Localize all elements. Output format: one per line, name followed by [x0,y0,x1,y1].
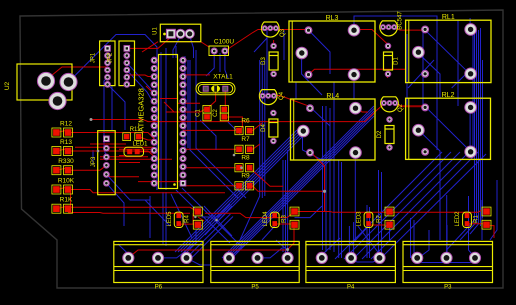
IC IC1 pin 2 (left) [151,66,157,72]
resistor R1K pad left [52,204,61,213]
IC IC1 pin 12 (left) [151,148,157,154]
resistor R7 pad right [246,145,254,153]
resistor R6 pad right [246,127,254,135]
capacitor C2 pad top [220,105,228,113]
LED LED5 outline [174,212,183,227]
relay RL3 label [326,15,339,22]
LED LED2 label [455,211,461,227]
wire top-layer red: bottom rails [68,190,483,226]
svg-text:LED5: LED5 [167,211,173,227]
transistor Q2 pads [382,101,398,106]
svg-text:P5: P5 [251,284,259,290]
IC IC1 pin 32 (right) [180,57,186,63]
crystal XTAL1 center pad [211,85,220,92]
connector P6 pad 2 [152,252,163,263]
wire top-layer red: IC to R6..R9 [183,123,262,186]
wire bottom-layer blue: upper-left area [69,35,158,157]
relay RL3 outline [289,21,375,82]
resistor R11 pad right [135,133,143,141]
capacitor C1 pad bottom [203,113,211,121]
svg-text:LED4: LED4 [263,211,269,227]
diode D2 pad anode [387,117,392,122]
svg-text:RL2: RL2 [442,92,455,99]
header JP1 pin 2 [105,53,110,58]
IC IC1 pin 7 (left) [151,107,157,113]
svg-text:R8: R8 [241,155,250,162]
IC IC1 pin 29 (right) [180,82,186,88]
diode D4 pad cathode [271,138,276,143]
header JP1 outline [100,41,115,86]
junction dot left rail [90,118,93,121]
svg-text:JP2: JP2 [108,52,114,63]
capacitor C2 pad bottom [220,113,228,121]
wire top-layer red: extra long horizontals mid-left [75,144,154,163]
relay RL1 pad coil-left [422,26,429,33]
wire top-layer red: coil diagonals to D [354,30,387,113]
resistor R2 pad top [385,207,394,216]
IC IC1 pin 1 (left) [151,57,157,63]
header JP3 pin 3 [104,154,109,159]
resistor R330 pad right [64,166,73,175]
connector U1 label [153,27,159,35]
svg-text:D3: D3 [261,57,267,65]
resistor R3 pad bottom [290,220,299,229]
wire bottom-layer blue: JP3 down-right [106,174,150,226]
relay RL2 label [442,92,455,99]
svg-text:RL3: RL3 [326,15,339,22]
relay RL2 pad nc [465,146,477,158]
capacitor C1 label [196,109,202,117]
IC IC1 pin 17 square (right) [180,180,186,186]
header JP1 pin 1 [105,46,111,52]
wire bottom-layer blue: led-row blue jogs [202,204,322,218]
IC IC1 pin 28 (right) [180,90,186,96]
connector P5 pad 3 [282,252,293,263]
connector U2 pad 1 [37,72,54,89]
diode D4 label [261,124,267,132]
svg-text:LED3: LED3 [357,211,363,227]
connector P3 pad 1 [412,252,423,263]
diode D1 body [384,52,393,70]
LED LED2 pad top [465,213,470,218]
svg-text:R13: R13 [60,139,72,146]
IC IC1 pin 15 (left) [151,172,157,178]
relay RL3 pad coil-left [305,27,312,34]
diode D1 pad cathode [385,71,390,76]
wire top-layer red: LED1 / R11 area [100,99,205,182]
header JP1 pin 4 [105,67,110,72]
IC IC1 pin 10 (left) [151,131,157,137]
relay RL1 outline [406,20,491,82]
IC IC1 ATMEGA328 outline [159,55,178,189]
transistor Q3 body [262,22,280,37]
wire top-layer red: left resistor nets [68,133,225,193]
wire bottom-layer blue: '/' bundle B2 [175,130,309,252]
svg-text:R10K: R10K [58,178,75,185]
IC IC1 pin 24 (right) [180,123,186,129]
transistor Q2 label [398,103,404,112]
resistor R8 pad left [235,164,243,172]
svg-text:RL1: RL1 [442,14,455,21]
IC IC1 pin 30 (right) [180,74,186,80]
svg-text:R1K: R1K [60,197,73,204]
IC IC1 pin 25 (right) [180,115,186,121]
header JP2 outline [119,41,135,86]
wire top-layer red: Q4 feed diag [274,96,310,107]
wire bottom-layer blue: C100U down to xtal [206,53,228,78]
capacitor C2 label [213,109,219,117]
connector P4 outline [306,241,396,282]
IC IC1 pin 31 (right) [180,66,186,72]
header JP2 pin 2 [124,53,129,58]
resistor R2 pad bottom [385,220,394,229]
resistor R8 pad right [246,164,254,172]
header JP2 pin 4 [124,67,129,72]
LED LED5 pad bottom [176,221,181,226]
header JP3 pin 6 [104,181,109,186]
wire top-layer red: y~120 long rail into RL4 pad [91,104,384,122]
relay RL4 pad coil-left [307,105,314,112]
header JP1 pin 5 [105,75,110,80]
LED LED3 pad bottom [366,221,371,226]
header JP2 pin 5 [124,75,129,80]
connector U1 pad 3 [185,29,194,38]
LED LED4 label [263,211,269,227]
resistor R10K label [58,178,75,185]
wire bottom-layer blue: verticals into P5 pad3 / P4 [283,150,414,258]
IC IC1 pin 6 (left) [151,98,157,104]
connector P3 pad 3 [469,252,480,263]
svg-text:C1: C1 [196,109,202,117]
transistor Q3 pads [262,26,278,31]
junction dot near R8 lower [240,166,243,169]
wire bottom-layer blue: U1 down [173,36,194,58]
IC IC1 pin 16 (left) [151,180,157,186]
svg-text:R4: R4 [185,215,191,223]
connector P6 pad 1 [123,252,134,263]
crystal XTAL1 pad 1 [203,86,208,91]
svg-text:P4: P4 [347,284,355,290]
svg-text:D4: D4 [261,124,267,132]
LED LED3 label [357,211,363,227]
LED LED1 pad right [135,149,140,154]
resistor R7 label [241,136,250,143]
diode D2 pad cathode [387,145,392,150]
IC IC1 pin 22 (right) [180,139,186,145]
wire bottom-layer blue: '/' bundle from P4 area up through RL2 [335,152,486,259]
svg-text:XTAL1: XTAL1 [213,74,233,81]
resistor R13 label [60,139,72,146]
wire top-layer red: led row connections [198,217,494,238]
LED LED1 pad left [127,149,132,154]
relay RL3 pad nc [348,69,360,81]
svg-text:R3: R3 [282,215,288,223]
resistor R10K pad left [52,185,61,194]
svg-text:JP3: JP3 [91,156,97,167]
wire bottom-layer blue: RL1 internals [408,18,470,98]
wire bottom-layer blue: '/' tight bundle B1 from P5 up through RL4 [222,106,374,258]
wire bottom-layer blue: RL2 internals [417,106,470,240]
resistor R330 pad left [52,166,61,175]
connector P4 pad 3 [374,252,385,263]
LED LED3 outline [364,212,373,227]
resistor R1 pad bottom [482,220,491,229]
svg-text:Q2: Q2 [398,103,404,112]
wire bottom-layer blue: RL4 internals [303,106,356,240]
svg-text:P3: P3 [444,284,452,290]
relay RL4 outline [291,99,376,160]
wire top-layer red: P6 long rail [128,227,294,258]
svg-text:C2: C2 [213,109,219,117]
svg-text:R1: R1 [474,215,480,223]
crystal XTAL1 outline [196,83,235,95]
svg-text:R6: R6 [241,118,250,125]
wire bottom-layer blue: bundle below RL4 down to P5 [323,82,335,252]
svg-text:D2: D2 [377,130,383,138]
capacitor C1 pad top [203,105,211,113]
junction dot led row [215,219,218,222]
capacitor C100U label [214,39,235,46]
IC IC1 pin 20 (right) [180,156,186,162]
wire top-layer red: U1 underside across to C100U [160,42,209,47]
wire bottom-layer blue: IC bottom to bottom connectors [145,188,242,247]
junction dot R4 [194,216,196,218]
connector U1 pad 2 [176,29,185,38]
crystal XTAL1 label [213,74,233,81]
svg-text:U2: U2 [4,81,11,90]
LED LED4 outline [270,212,279,227]
IC IC1 pin 13 (left) [151,156,157,162]
wire bottom-layer blue: inside P5 diag [229,244,282,258]
connector U1 origin dot [163,33,166,36]
IC IC1 pin 21 (right) [180,148,186,154]
relay RL3 pad common [296,47,308,59]
wire bottom-layer blue: LED2 area verticals [447,180,497,258]
relay RL1 pad coil-right [465,24,477,36]
connector P3 outline [403,241,493,282]
resistor R9 label [241,173,250,180]
resistor R11 label [130,127,141,133]
header JP2 pin 1 [124,46,130,52]
svg-text:Q4: Q4 [279,91,285,100]
IC IC1 pin 5 (left) [151,90,157,96]
header JP2 label [108,52,114,63]
IC IC1 pin 14 (left) [151,164,157,170]
relay RL3 pad coil-right [348,24,360,36]
diode D3 pad cathode [271,71,276,76]
relay RL1 pad common [413,46,425,58]
resistor R12 pad left [52,128,61,137]
diode D2 label [377,130,383,138]
header JP3 pin 1 [104,136,110,142]
svg-text:ATMEGA328: ATMEGA328 [137,88,146,132]
resistor R6 label [241,118,250,125]
connector P5 outline [211,241,299,282]
resistor R4 pad bottom [193,220,202,229]
transistor Q1 label [398,11,404,30]
connector U2 label [4,81,11,90]
transistor Q4 pads [260,94,276,99]
resistor R9 pad right [246,182,254,190]
wire bottom-layer blue: under C1/C2 diagonals [200,120,240,150]
resistor R330 label [58,158,74,165]
junction dot at JP3 left [97,150,100,153]
LED LED5 label [167,211,173,227]
transistor Q1 body [380,21,398,36]
IC IC1 pin 19 (right) [180,164,186,170]
resistor R13 pad right [64,147,73,156]
header JP3 pin 5 [104,172,109,177]
resistor R11 pad left [123,133,131,141]
IC IC1 pin 26 (right) [180,107,186,113]
IC IC1 pin 8 (left) [151,115,157,121]
LED LED1 outline [124,147,144,156]
resistor R10K pad right [64,185,73,194]
connector P6 outline [114,241,203,282]
svg-text:Q3: Q3 [280,28,286,37]
wire bottom-layer blue: top blue horizontal [354,16,437,150]
relay RL1 label [442,14,455,21]
LED LED1 label [132,142,148,148]
svg-text:C100U: C100U [214,39,235,46]
LED LED4 pad bottom [272,221,277,226]
connector P5 label [251,284,259,290]
diode D1 pad anode [385,43,390,48]
capacitor C100U pad 1 [211,48,217,54]
capacitor C100U outline [209,46,229,56]
wire top-layer red: XTAL nets [207,89,242,131]
connector U1 outline [160,24,201,42]
wire top-layer red: R9 net onward / RL4 vertical [250,151,325,212]
relay RL2 pad coil-left [422,104,429,111]
svg-text:D1: D1 [394,57,400,65]
connector P4 pad 2 [346,252,357,263]
diode D3 pad anode [271,43,276,48]
header JP1 label [91,52,97,63]
resistor R4 label [185,215,191,223]
svg-text:U1: U1 [153,27,159,35]
relay RL2 pad coil-right [465,102,477,114]
LED LED4 pad top [272,213,277,218]
wire bottom-layer blue: relay RL3 internals [302,30,354,99]
connector P5 pad 2 [252,252,263,263]
diode D2 body [385,126,394,144]
header JP1 pin 3 [105,60,110,65]
svg-text:R9: R9 [241,173,250,180]
wire top-layer red: U2 net [46,67,108,80]
relay RL4 label [326,93,339,100]
wire bottom-layer blue: IC column verticals [93,46,246,198]
header JP2 pin 3 [124,60,129,65]
svg-text:JP1: JP1 [91,52,97,63]
header JP3 label [91,156,97,167]
wire bottom-layer blue: misc upper right [472,30,474,74]
svg-text:RL4: RL4 [326,93,339,100]
diode D4 pad anode [271,110,276,115]
svg-text:R11: R11 [130,127,141,133]
header JP3 pin 4 [104,163,109,168]
resistor R3 pad top [290,207,299,216]
wire bottom-layer blue: into P4 / P3 [118,196,475,265]
resistor R1 label [474,215,480,223]
relay RL2 pad common [413,124,425,136]
header JP2 pin 6 [124,82,129,87]
connector P5 pad 1 [223,252,234,263]
wire bottom-layer blue: Q/D column verticals (left pair) [240,30,267,240]
resistor R1K pad right [64,204,73,213]
relay RL1 pad no [422,71,429,78]
connector U2 pad 2 [60,73,77,90]
LED LED2 pad bottom [465,221,470,226]
wire bottom-layer blue: led area diagonals [262,226,390,244]
resistor R7 pad left [235,145,243,153]
resistor R2 label [377,215,383,223]
resistor R12 pad right [64,128,73,137]
IC IC1 pin 4 (left) [151,82,157,88]
IC IC1 pin 23 (right) [180,131,186,137]
IC IC1 pin 11 (left) [151,139,157,145]
relay RL4 pad no [307,149,314,156]
resistor R4 pad top [193,207,202,216]
connector P4 pad 1 [316,252,327,263]
capacitor C100U pad 2 [222,48,228,54]
wire top-layer red: Q1 feed [394,27,425,30]
LED LED3 pad top [366,213,371,218]
wire top-layer red: C100U up-right to Q3 feed [225,30,309,52]
connector P6 label [155,284,163,290]
transistor Q4 label [279,91,285,100]
wire top-layer red: JP2 to U1 [127,37,210,112]
resistor R8 label [241,155,250,162]
resistor R1K label [60,197,73,204]
crystal XTAL1 pad 2 [223,86,228,91]
IC IC1 pin 27 (right) [180,98,186,104]
transistor Q4 body [259,90,277,105]
wire bottom-layer blue: right edge vertical bundle [447,28,483,250]
IC IC1 pin1 marker dot [173,183,176,186]
transistor Q1 pads [381,25,397,30]
IC IC1 pin 3 (left) [151,74,157,80]
connector P4 label [347,284,355,290]
connector U2 pad 3 [49,92,66,109]
IC IC1 label ATMEGA328 [137,88,146,132]
IC IC1 pin 18 (right) [180,172,186,178]
transistor Q3 label [280,28,286,37]
connector P6 pad 3 [181,252,192,263]
wire bottom-layer blue: left of relays verticals [284,29,296,99]
resistor R13 pad left [52,147,61,156]
wire top-layer red: RL2 coil feed (thick) [395,103,425,106]
wire bottom-layer blue: double diagonal into P6 pad3 [187,214,234,261]
relay RL4 pad nc [350,147,362,159]
junction dot near R8 [233,154,236,157]
wire top-layer red: relay bottom rail [309,69,406,74]
wire bottom-layer blue: inter-relay verticals right side [407,20,473,151]
relay RL3 pad no [305,71,312,78]
diode D4 body [269,119,278,137]
resistor R6 pad left [235,127,243,135]
svg-text:R330: R330 [58,158,74,165]
wire top-layer red: D connections [274,40,388,78]
diode D3 label [261,57,267,65]
diode D3 body [269,52,278,70]
LED LED2 outline [463,212,472,227]
resistor R3 label [282,215,288,223]
diode D1 label [394,57,400,65]
relay RL1 pad nc [465,68,477,80]
svg-text:R7: R7 [241,136,250,143]
svg-text:LED2: LED2 [455,211,461,227]
